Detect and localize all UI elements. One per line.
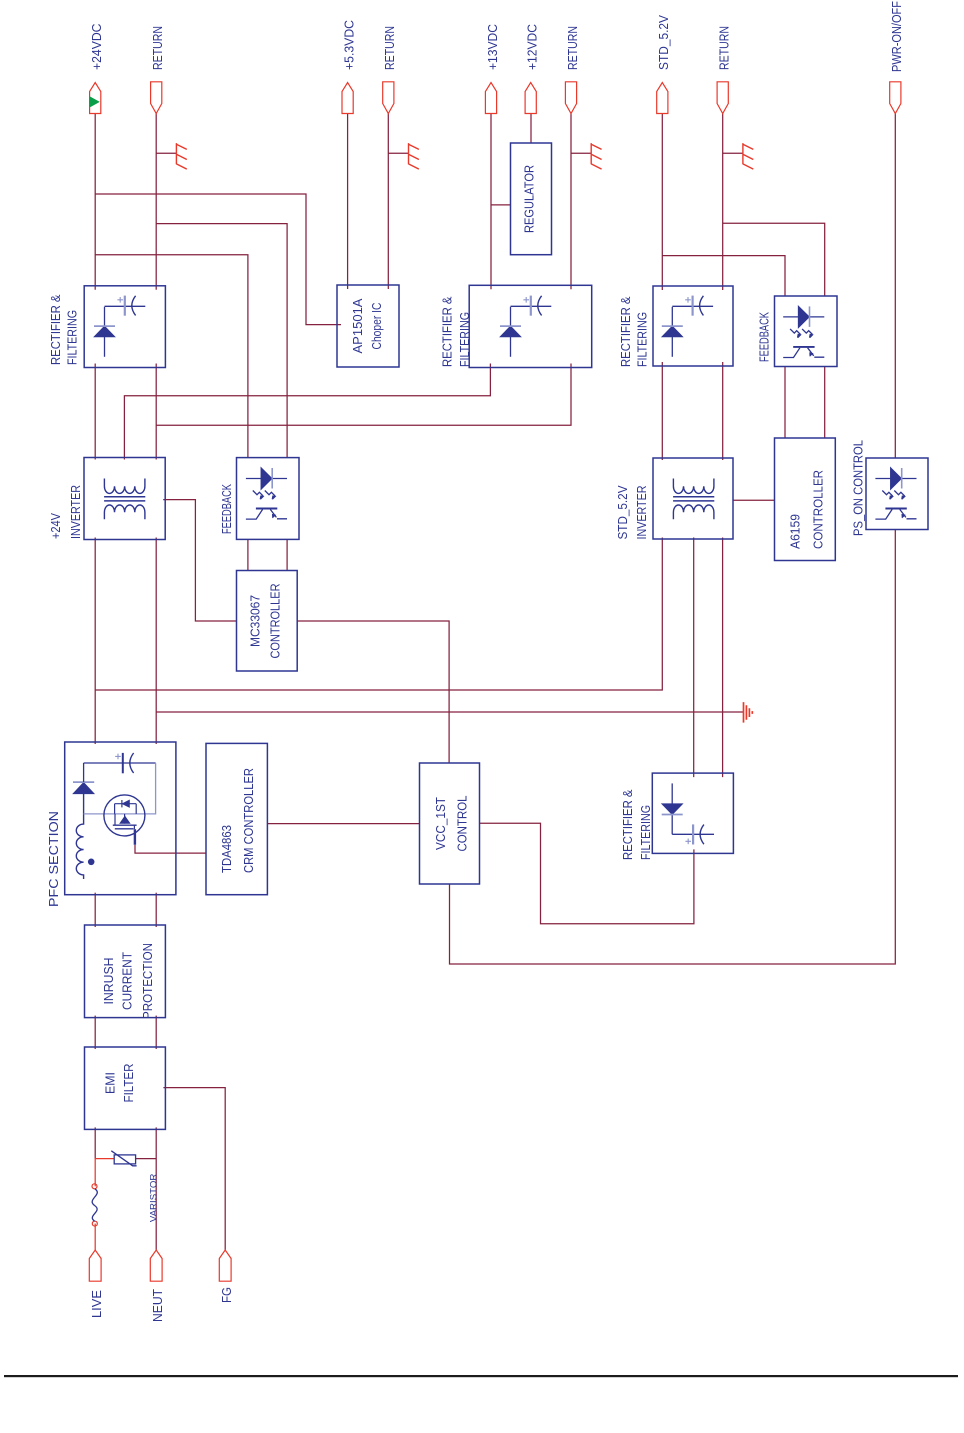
- svg-text:PROTECTION: PROTECTION: [141, 943, 155, 1019]
- wire STD_5.2V rail: [661, 114, 663, 291]
- svg-text:VCC_1ST: VCC_1ST: [434, 797, 448, 850]
- wire STD inverter to rectifier4 links: [693, 538, 695, 778]
- varistor RV1: [114, 1155, 135, 1164]
- block EMI FILTER: [85, 1047, 166, 1129]
- block A6159 CONTROLLER: [775, 438, 836, 561]
- svg-text:FG: FG: [220, 1287, 234, 1303]
- svg-text:RETURN: RETURN: [383, 26, 397, 70]
- svg-text:FEEDBACK: FEEDBACK: [220, 484, 234, 534]
- wire PWR-ON/OFF to VCC_1ST: [450, 530, 896, 965]
- ground earth (secondary common): [744, 702, 753, 723]
- wire VCC_1ST to rectifier4: [480, 823, 694, 924]
- wire MC33067 out to VCC_1ST control: [297, 621, 449, 763]
- fuse F1: [92, 1184, 97, 1189]
- svg-text:+24VDC: +24VDC: [90, 24, 104, 71]
- wire STD inverter to A6159 in: [733, 499, 775, 501]
- svg-text:INVERTER: INVERTER: [635, 486, 649, 540]
- block RECTIFIER & FILTERING 2: [469, 285, 592, 367]
- wire +24V to feedback U-opto anode: [95, 255, 248, 458]
- diode D4 + capacitor C4 (rectifier4): [671, 783, 673, 834]
- svg-text:FILTERING: FILTERING: [66, 310, 80, 365]
- opto-coupler PC3 (PS_ON control): [875, 468, 916, 519]
- connector RETURN 2: [383, 82, 394, 114]
- block INRUSH CURRENT PROTECTION: [85, 925, 166, 1018]
- svg-text:RETURN: RETURN: [151, 26, 165, 70]
- wire +13V branch to regulator: [491, 204, 511, 206]
- ground chassis at RETURN2: [388, 152, 408, 154]
- connector RETURN 4: [717, 82, 728, 114]
- svg-text:FILTER: FILTER: [122, 1064, 136, 1103]
- svg-text:CRM CONTROLLER: CRM CONTROLLER: [242, 768, 256, 873]
- block AP1501A Choper IC: [337, 285, 399, 367]
- block +24V INVERTER: [84, 458, 165, 540]
- svg-text:PFC SECTION: PFC SECTION: [47, 811, 61, 907]
- svg-text:STD_5.2V: STD_5.2V: [657, 14, 671, 70]
- wire +24V inverter out to rectifier2 high pin: [124, 364, 490, 460]
- connector +13VDC: [485, 83, 496, 114]
- svg-text:CONTROLLER: CONTROLLER: [812, 470, 826, 549]
- wire +5.3V rail: [347, 114, 349, 290]
- svg-text:INRUSH: INRUSH: [102, 958, 116, 1005]
- wire feedback1 to MC33067 pins: [247, 539, 249, 570]
- connector LIVE: [89, 1250, 101, 1281]
- wire rectifier3 to STD inverter low: [722, 362, 724, 460]
- diode D2 + capacitor C2 (rectifier2): [510, 307, 512, 357]
- wire STD_5.2V branch to feedback2 anode: [662, 256, 785, 296]
- svg-text:+24V: +24V: [49, 512, 63, 539]
- svg-text:EMI: EMI: [104, 1072, 118, 1094]
- ground chassis at RETURN4: [723, 152, 743, 154]
- connector FG: [219, 1250, 231, 1281]
- svg-text:FILTERING: FILTERING: [636, 312, 650, 367]
- connector +5.3VDC: [342, 83, 353, 114]
- block FEEDBACK 2: [775, 296, 838, 367]
- svg-text:CURRENT: CURRENT: [121, 952, 135, 1010]
- mosfet source lead: [134, 829, 136, 845]
- wire +13V rail: [490, 114, 492, 290]
- wire +12V regulator output: [530, 114, 532, 144]
- svg-text:MC33067: MC33067: [249, 595, 263, 647]
- opto-coupler PC2 (feedback2): [783, 306, 824, 357]
- wire NEUT rail segments: [155, 1127, 157, 1250]
- green indicator triangle: [90, 96, 100, 107]
- wire primary rail to STD inverter: [95, 538, 662, 691]
- svg-text:LIVE: LIVE: [90, 1290, 104, 1318]
- connector +12VDC: [525, 83, 536, 114]
- wire +24V to AP1501A choper: [95, 194, 341, 325]
- svg-text:FILTERING: FILTERING: [458, 312, 472, 367]
- block VCC_1ST CONTROL: [420, 763, 480, 884]
- svg-text:RECTIFIER &: RECTIFIER &: [441, 296, 455, 367]
- svg-text:RETURN: RETURN: [566, 26, 580, 70]
- svg-text:RECTIFIER &: RECTIFIER &: [619, 296, 633, 367]
- block STD_5.2V INVERTER: [653, 458, 733, 539]
- connector NEUT: [150, 1250, 162, 1281]
- svg-text:NEUT: NEUT: [151, 1289, 165, 1322]
- wire neut rail to rectifier2 low pin: [156, 364, 571, 426]
- inductor L1 (PFC): [76, 794, 83, 879]
- block RECTIFIER & FILTERING 1: [84, 286, 165, 368]
- svg-text:FEEDBACK: FEEDBACK: [758, 312, 772, 362]
- block REGULATOR: [511, 143, 552, 255]
- wire PWR-ON/OFF from PS_ON to connector: [894, 114, 896, 459]
- wire TDA4863 to VCC_1ST: [267, 823, 419, 825]
- svg-text:STD_5.2V: STD_5.2V: [616, 485, 630, 540]
- connector PWR-ON/OFF: [890, 82, 901, 114]
- wire LIVE red segments near fuse: [94, 1224, 96, 1250]
- wire inverter24 to MC33067 in: [163, 500, 236, 621]
- block FEEDBACK 1: [237, 458, 300, 540]
- diode D1 + capacitor C1 (rectifier1): [104, 307, 106, 357]
- block TDA4863 CRM CONTROLLER: [206, 743, 267, 894]
- wire rectifier3 to STD inverter high: [661, 362, 663, 460]
- wire return3 rail: [570, 114, 572, 290]
- svg-text:+5.3VDC: +5.3VDC: [343, 20, 357, 70]
- connector RETURN 1: [151, 82, 162, 114]
- block PFC SECTION: [65, 742, 176, 895]
- mosfet Q1 (PFC switch): [104, 795, 145, 836]
- wire feedback2 to A6159 pins: [784, 367, 786, 439]
- svg-text:TDA4863: TDA4863: [220, 825, 234, 873]
- svg-text:VARISTOR: VARISTOR: [148, 1173, 159, 1222]
- ground chassis at RETURN3: [571, 152, 591, 154]
- wire return4 branch to feedback2 cathode: [723, 223, 825, 296]
- connector STD_5.2V: [657, 83, 668, 114]
- wire PFC internal node: [84, 763, 156, 814]
- svg-text:INVERTER: INVERTER: [69, 485, 83, 539]
- wire return rail to earth ground: [156, 711, 743, 713]
- wire return4 rail: [722, 114, 724, 291]
- wire varistor leads: [95, 1158, 114, 1160]
- svg-text:+13VDC: +13VDC: [486, 24, 500, 70]
- wire return to feedback opto cathode: [156, 224, 287, 458]
- page footer rule: [4, 1375, 958, 1377]
- block MC33067 CONTROLLER: [237, 571, 298, 672]
- svg-text:A6159: A6159: [789, 514, 803, 549]
- wire return2 rail: [387, 114, 389, 290]
- diode D3 + capacitor C3 (rectifier3): [671, 307, 673, 357]
- block RECTIFIER & FILTERING 4: [652, 773, 733, 853]
- svg-text:CONTROLLER: CONTROLLER: [269, 584, 283, 659]
- block PS_ON CONTROL: [866, 458, 928, 530]
- wire EMI filter FG lead: [163, 1088, 225, 1250]
- block RECTIFIER & FILTERING 3: [653, 286, 733, 366]
- svg-text:PS_ON CONTROL: PS_ON CONTROL: [852, 440, 866, 536]
- svg-text:RETURN: RETURN: [718, 26, 732, 70]
- svg-text:AP1501A: AP1501A: [351, 298, 365, 354]
- svg-text:PWR-ON/OFF: PWR-ON/OFF: [890, 1, 904, 72]
- transformer T2 (STD_5.2V inverter): [673, 497, 714, 501]
- svg-text:RECTIFIER &: RECTIFIER &: [621, 789, 635, 860]
- svg-text:REGULATOR: REGULATOR: [523, 165, 537, 233]
- opto-coupler PC1 (feedback1): [246, 468, 287, 519]
- diode D5 (PFC boost): [73, 783, 94, 794]
- connector +24VDC: [90, 83, 101, 114]
- ground chassis at RETURN1: [156, 152, 176, 154]
- wire LIVE rail (primary +) segments: [94, 1127, 96, 1158]
- svg-text:CONTROL: CONTROL: [456, 795, 470, 851]
- transformer T1 (+24V inverter): [104, 497, 145, 501]
- svg-text:FILTERING: FILTERING: [639, 805, 653, 860]
- svg-text:Choper IC: Choper IC: [370, 303, 384, 350]
- svg-text:RECTIFIER &: RECTIFIER &: [49, 294, 63, 365]
- wire PFC mosfet to TDA4863: [135, 845, 206, 853]
- capacitor C5 (PFC bulk): [84, 762, 156, 764]
- inductor phase dot: [88, 859, 95, 866]
- connector RETURN 3: [565, 82, 576, 114]
- svg-text:+12VDC: +12VDC: [526, 24, 540, 70]
